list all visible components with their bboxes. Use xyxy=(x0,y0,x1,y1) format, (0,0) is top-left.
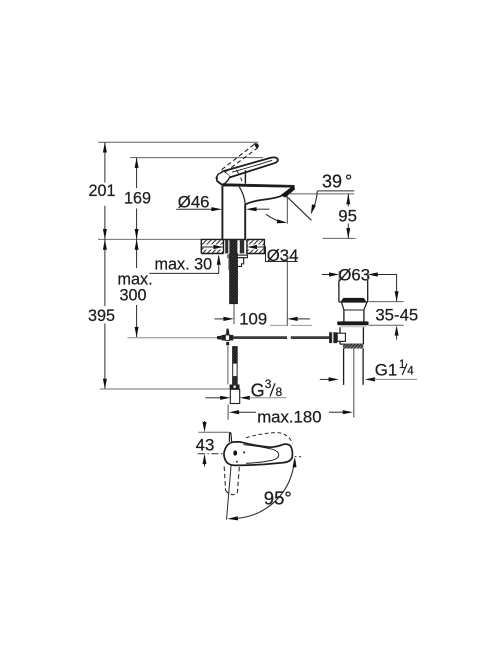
cap side extensions xyxy=(338,271,340,282)
dimension max300 line xyxy=(136,239,138,337)
water stream line xyxy=(286,196,311,220)
rod from faucet xyxy=(226,329,228,331)
svg-text:395: 395 xyxy=(88,307,115,325)
flexible hose upper braided xyxy=(232,346,238,363)
hose lower braided xyxy=(232,377,238,385)
tail centreline xyxy=(353,349,355,418)
svg-text:3: 3 xyxy=(265,377,272,391)
svg-text:max. 30: max. 30 xyxy=(155,256,213,274)
body column right edge xyxy=(244,205,246,240)
dimension 201 line xyxy=(104,142,106,239)
dimension 169 line xyxy=(136,158,138,240)
dimension 395 arrows xyxy=(103,239,107,249)
side port nut xyxy=(329,332,337,343)
mounting nut steps xyxy=(237,258,244,267)
shank stripes inside deck hole xyxy=(225,240,244,254)
95 deg reference line xyxy=(227,464,232,520)
left extension xyxy=(227,405,229,420)
basin bottom reference line xyxy=(270,324,287,326)
dashed alt position above xyxy=(246,433,293,444)
lever blade solid xyxy=(223,157,278,177)
svg-text:max.: max. xyxy=(118,270,153,288)
dimension 395 line xyxy=(104,239,106,389)
lever raised dashed lower edge xyxy=(225,147,258,172)
svg-text:43: 43 xyxy=(196,436,215,455)
rod level reference line (max300 bottom) xyxy=(127,337,217,339)
horizontal pop-up rod to drain (with break) xyxy=(233,336,287,339)
plug seal dark band xyxy=(341,298,367,302)
left arrow xyxy=(229,410,239,414)
centreline dash-dot xyxy=(198,453,233,455)
dimension max30 arrow xyxy=(217,254,221,264)
dim 109 right arrow xyxy=(287,317,298,321)
deck left block xyxy=(201,239,223,253)
ext line spout outlet xyxy=(289,193,355,195)
svg-text:300: 300 xyxy=(120,287,147,305)
dimension 201 arrows xyxy=(103,142,107,152)
arc from label to stream xyxy=(312,191,317,211)
upper body xyxy=(344,310,364,322)
extension line (169 ref, lever tip) xyxy=(130,157,263,159)
dimension dia34 arrows xyxy=(202,246,214,248)
extension line top (201 ref, lever raised tip) xyxy=(98,141,259,143)
43 up arrow xyxy=(203,454,207,464)
pivot dot xyxy=(233,450,237,455)
svg-text:8: 8 xyxy=(276,385,283,399)
body column left edge xyxy=(221,186,223,240)
stud line left xyxy=(228,255,230,270)
deck reference line left xyxy=(98,238,201,240)
spout outlet dark wedge xyxy=(281,185,295,197)
dia46 left arrow xyxy=(211,207,222,211)
flange dark xyxy=(337,321,368,325)
hidden cartridge dashes xyxy=(237,170,243,181)
dimension max30 leader xyxy=(149,257,218,274)
43 top extension xyxy=(199,431,230,433)
lever cap inner stroke xyxy=(217,177,224,185)
svg-text:35-45: 35-45 xyxy=(375,306,418,325)
small dot below xyxy=(236,461,238,463)
lever neck line xyxy=(244,170,246,183)
dia34 label box xyxy=(266,246,298,261)
svg-text:169: 169 xyxy=(124,190,151,208)
spout underside curve xyxy=(245,196,281,204)
lever front cap xyxy=(216,171,230,184)
rotated handle dashed xyxy=(224,467,225,491)
body waist curve xyxy=(239,187,245,205)
lever raised tip cap xyxy=(254,144,259,148)
flange underside band xyxy=(341,325,367,327)
dim 95 arrows xyxy=(346,194,350,204)
svg-text:max.180: max.180 xyxy=(257,407,321,426)
handle outline top view xyxy=(224,442,293,466)
svg-text:95°: 95° xyxy=(264,488,292,509)
dia63 leader to 35-45 line xyxy=(377,275,397,302)
label 39 underline leader xyxy=(317,190,354,192)
angle arc left with arrow xyxy=(266,214,285,222)
hose middle sleeve xyxy=(233,363,237,377)
dimension 169 arrows xyxy=(135,158,139,168)
handle inner contour xyxy=(244,445,279,464)
ext line deck level right xyxy=(323,237,356,239)
hose nut xyxy=(230,385,240,390)
dim 109 left leader xyxy=(215,318,225,320)
svg-text:95: 95 xyxy=(338,207,357,226)
hatch clear band for dia34 arrows xyxy=(204,244,223,249)
body base line on deck xyxy=(222,239,246,241)
svg-text:G1: G1 xyxy=(375,360,397,379)
dim 95 line xyxy=(347,194,349,239)
lever blade inner line xyxy=(232,160,272,172)
vertical reference line xyxy=(286,197,288,224)
plug cap xyxy=(339,281,368,302)
dia46 right arrow xyxy=(246,207,257,211)
svg-text:109: 109 xyxy=(239,310,267,329)
svg-text:201: 201 xyxy=(88,182,115,200)
svg-text:Ø34: Ø34 xyxy=(267,246,299,265)
svg-text:39 °: 39 ° xyxy=(322,172,352,192)
lower body xyxy=(340,327,363,344)
G1 1/4 dimension xyxy=(320,378,330,380)
neck trapezoid xyxy=(342,303,367,310)
cap bottom line xyxy=(339,301,368,303)
shank centre extension xyxy=(233,304,235,324)
svg-text:Ø63: Ø63 xyxy=(338,266,370,285)
spout / shoulder top line xyxy=(223,184,294,188)
pull rod below cross xyxy=(227,345,229,384)
dimension max300 arrows xyxy=(135,239,139,249)
threaded shank tube xyxy=(230,254,238,304)
tailpipe xyxy=(343,349,345,385)
95 deg arc xyxy=(235,461,294,519)
dia63 dimension xyxy=(322,274,331,276)
washer under deck xyxy=(228,255,248,258)
thread band xyxy=(343,344,363,348)
35-45 dimension xyxy=(369,301,404,303)
43 down arrow xyxy=(204,421,206,423)
hose G3/8 thread tube xyxy=(230,389,239,403)
handle front tab xyxy=(229,432,231,442)
hose depth reference line (395 bottom) xyxy=(100,388,230,390)
lever raised dashed upper edge xyxy=(222,144,255,169)
small dot xyxy=(243,451,245,453)
side port white block xyxy=(337,333,345,341)
cross fitting xyxy=(217,331,233,346)
svg-text:4: 4 xyxy=(407,366,414,378)
deck right block xyxy=(247,239,265,253)
dia46 left leader xyxy=(176,208,212,210)
right arrow xyxy=(343,410,353,414)
svg-text:G: G xyxy=(251,381,265,401)
